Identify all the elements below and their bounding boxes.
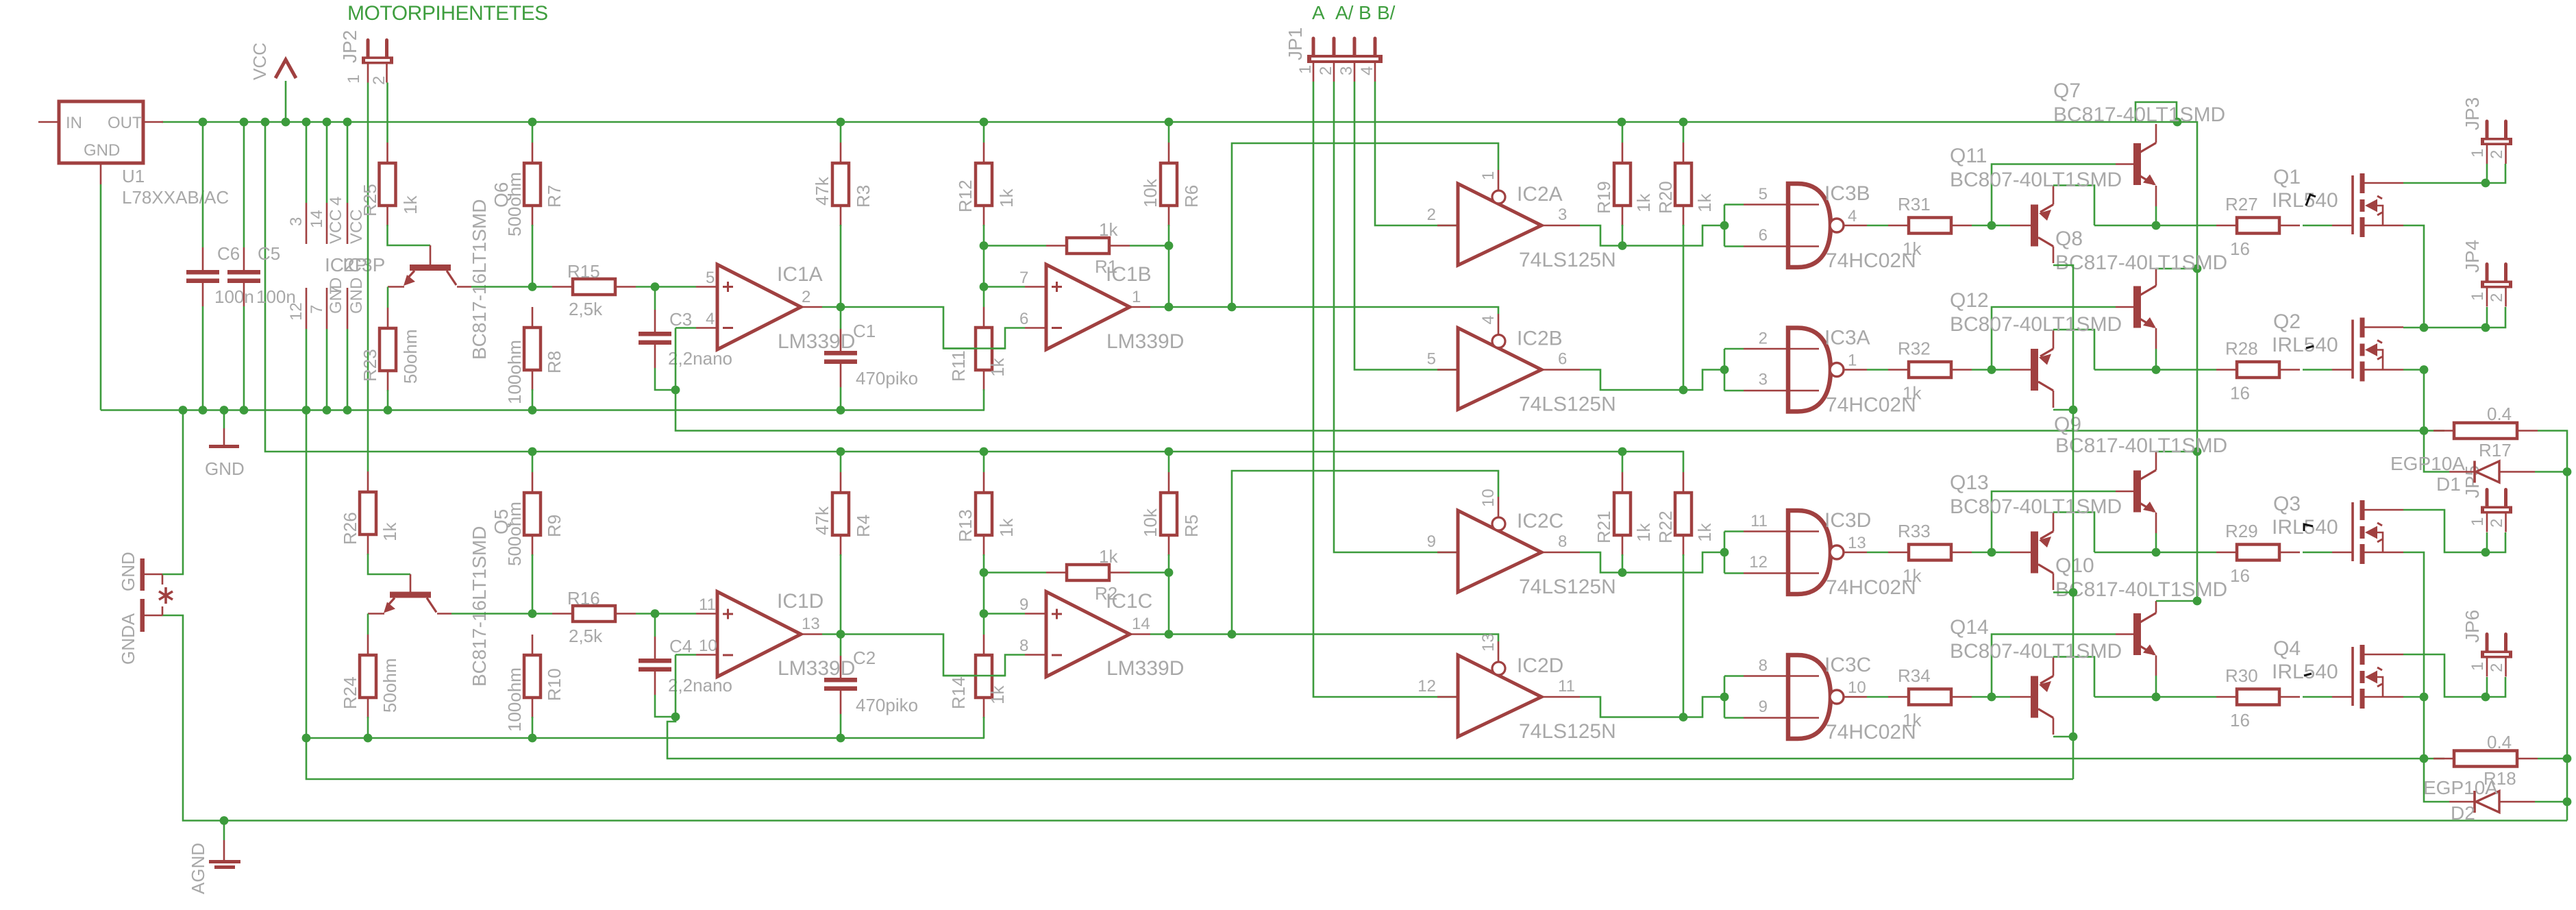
wire IC1B out to IC2B enable — [1232, 307, 1498, 314]
wire JP5 pins to node — [2486, 532, 2488, 552]
svg-text:2: 2 — [2488, 519, 2506, 528]
svg-text:IC3B: IC3B — [1824, 182, 1870, 205]
transistor Q6 — [430, 245, 432, 265]
svg-text:16: 16 — [2230, 565, 2250, 586]
wire R24 to lower GND bus — [367, 717, 369, 738]
svg-text:10: 10 — [1479, 489, 1498, 507]
resistor R32 — [1888, 369, 1909, 371]
wire R4 to output node — [840, 554, 842, 635]
resistor R22 — [1683, 472, 1685, 493]
svg-text:JP2: JP2 — [339, 30, 360, 63]
svg-text:9: 9 — [1759, 698, 1768, 716]
svg-text:R17: R17 — [2479, 440, 2512, 460]
svg-text:Q10: Q10 — [2055, 554, 2094, 577]
op-amp IC1A LM339D — [717, 265, 801, 349]
svg-text:R27: R27 — [2225, 194, 2258, 214]
transistor Q5 — [410, 574, 412, 592]
svg-text:1k: 1k — [987, 358, 1008, 377]
svg-text:D1: D1 — [2436, 474, 2461, 495]
svg-text:6: 6 — [1759, 226, 1768, 245]
svg-text:2: 2 — [370, 76, 388, 85]
resistor R29 — [2216, 552, 2237, 554]
resistor R11 — [983, 287, 985, 308]
op-amp IC1B LM339D — [1046, 265, 1130, 349]
wire Q4 drain jog to JP6 — [2403, 654, 2486, 697]
pin IC1D + input — [696, 613, 717, 615]
svg-text:IC1A: IC1A — [777, 263, 823, 286]
svg-text:500ohm: 500ohm — [504, 502, 525, 566]
svg-text:Q4: Q4 — [2273, 637, 2301, 660]
svg-text:IRL540: IRL540 — [2272, 334, 2338, 356]
svg-text:1: 1 — [1132, 288, 1141, 306]
buffer IC2C 74LS125N — [1458, 511, 1541, 592]
svg-text:IN: IN — [66, 114, 82, 132]
transistor Q11 BC807-40LT1SMD — [2031, 205, 2038, 247]
svg-text:R10: R10 — [544, 668, 565, 701]
wire Q6 emitter to R23 — [388, 286, 404, 288]
svg-text:6: 6 — [1558, 350, 1567, 369]
svg-text:3: 3 — [1337, 66, 1356, 75]
svg-text:9: 9 — [1427, 532, 1436, 551]
svg-text:47k: 47k — [812, 176, 832, 206]
wire Q5 collector to node B — [437, 613, 451, 615]
header JP6 — [2486, 635, 2489, 651]
svg-text:Q13: Q13 — [1950, 471, 1989, 494]
pin IC1A - input — [696, 327, 717, 329]
pin IC1D - input — [696, 654, 717, 656]
svg-text:R22: R22 — [1655, 511, 1676, 543]
svg-text:Q14: Q14 — [1950, 616, 1989, 639]
svg-text:11: 11 — [699, 595, 716, 614]
wire IC2A output jog — [1580, 225, 1724, 246]
svg-text:5: 5 — [1427, 350, 1436, 369]
wire R2 right to R5 node — [1130, 571, 1169, 574]
wire R10 to lower GND bus — [532, 717, 534, 738]
svg-text:10k: 10k — [1140, 508, 1161, 537]
svg-text:LM339D: LM339D — [1106, 330, 1184, 353]
wire driver ground bus — [306, 738, 2073, 779]
wire GND bus — [101, 409, 984, 411]
svg-text:1k: 1k — [1903, 565, 1922, 586]
svg-text:A: A — [1312, 2, 1325, 23]
wire R5 node to output node — [1168, 554, 1170, 573]
svg-text:IC2B: IC2B — [1517, 328, 1563, 350]
resistor R7 — [532, 122, 534, 143]
resistor R4 — [840, 452, 842, 472]
svg-text:9: 9 — [1019, 595, 1028, 614]
svg-text:EGP10A: EGP10A — [2390, 453, 2465, 474]
resistor R24 — [367, 635, 369, 655]
svg-text:BC817-40LT1SMD: BC817-40LT1SMD — [2055, 578, 2227, 601]
svg-text:LM339D: LM339D — [1106, 657, 1184, 680]
svg-text:IC3C: IC3C — [1824, 654, 1871, 676]
svg-text:3: 3 — [1759, 371, 1768, 389]
svg-text:R8: R8 — [544, 351, 565, 373]
wire JP2 pin2 to R25 — [386, 83, 388, 143]
wire R22 down to IC2D jog — [1683, 554, 1685, 717]
svg-text:IRL540: IRL540 — [2272, 189, 2338, 212]
header JP4 — [2486, 265, 2489, 281]
wire R21 to jog — [1622, 554, 1624, 573]
svg-text:GND: GND — [347, 278, 366, 314]
wire R1 right to R6 node — [1130, 245, 1169, 247]
wire VCC top rail — [162, 121, 2177, 123]
svg-text:50ohm: 50ohm — [380, 659, 400, 713]
wire R18 right to common — [2538, 758, 2567, 760]
NOR gate IC3C 74HC02N — [1788, 655, 1831, 739]
svg-text:JP4: JP4 — [2462, 240, 2483, 273]
svg-text:1: 1 — [1848, 352, 1857, 370]
supply VCC arrow — [285, 81, 287, 122]
wire R13 node down to IC1C + — [983, 573, 985, 614]
svg-text:1k: 1k — [1099, 219, 1118, 240]
svg-text:1k: 1k — [1099, 546, 1118, 567]
svg-text:IC1B: IC1B — [1106, 263, 1152, 286]
svg-text:C2: C2 — [853, 648, 876, 668]
wire R19 to jog — [1622, 225, 1624, 246]
wire JP4 pins to drain — [2486, 307, 2488, 328]
pin IC2A output — [1541, 225, 1580, 227]
transistor Q7 BC817-40LT1SMD — [2133, 143, 2141, 185]
wire IC1D - to C4 bottom — [675, 655, 677, 717]
capacitor C1 — [840, 307, 842, 329]
wire R14 to lower GND bus — [983, 717, 985, 738]
resistor R6 — [1168, 122, 1170, 143]
op-amp IC1D LM339D — [717, 592, 801, 677]
wire Q1 source down to Q2 drain — [2403, 225, 2424, 328]
scribble on Q1 label — [2306, 195, 2316, 206]
wire IC2A to NOR inputs — [1724, 205, 1726, 247]
svg-text:R9: R9 — [544, 515, 565, 537]
svg-text:JP1: JP1 — [1285, 27, 1306, 60]
wire VCC rail to right vertical — [2177, 122, 2197, 600]
svg-text:50ohm: 50ohm — [400, 330, 421, 384]
svg-text:1k: 1k — [1633, 193, 1654, 212]
svg-text:1k: 1k — [996, 518, 1017, 537]
svg-text:U1: U1 — [122, 166, 145, 186]
resistor R21 — [1622, 452, 1624, 472]
resistor R15 — [532, 286, 552, 288]
svg-text:R20: R20 — [1655, 181, 1676, 214]
wire IC1A - to C3 bottom — [675, 328, 677, 391]
pin U1 IN — [38, 121, 59, 123]
wire R25 to Q6 base — [388, 225, 431, 245]
svg-text:7: 7 — [1019, 269, 1028, 287]
wire IC2D to NOR inputs — [1724, 676, 1726, 718]
MOSFET Q4 IRL540 — [2351, 647, 2354, 706]
svg-text:2: 2 — [2488, 663, 2506, 672]
wire IC2D output jog — [1580, 697, 1724, 717]
svg-text:Q3: Q3 — [2273, 493, 2301, 515]
svg-text:8: 8 — [1558, 532, 1567, 551]
svg-text:C4: C4 — [669, 636, 692, 656]
supply GNDA bar — [140, 599, 145, 632]
svg-text:VCC: VCC — [249, 42, 270, 80]
svg-text:C3: C3 — [669, 309, 692, 330]
wire R30 to Q4 gate — [2303, 696, 2332, 698]
svg-text:BC807-40LT1SMD: BC807-40LT1SMD — [1950, 313, 2122, 336]
pin IC2C input — [1437, 552, 1458, 554]
svg-text:1k: 1k — [1903, 710, 1922, 730]
svg-text:74LS125N: 74LS125N — [1519, 249, 1616, 271]
svg-text:R7: R7 — [544, 185, 565, 208]
wire R32 node to Q8 base — [1992, 307, 2116, 370]
scribble on Q3 label — [2304, 524, 2313, 531]
wire GND bar to bus — [162, 410, 183, 575]
resistor R31 — [1888, 225, 1909, 227]
resistor R10 — [532, 635, 534, 655]
svg-text:LM339D: LM339D — [778, 657, 855, 680]
pin IC2C output — [1541, 552, 1580, 554]
wire driver output row Q4 — [2094, 696, 2216, 698]
wire U1 GND to bus — [100, 184, 102, 410]
buffer IC2B 74LS125N — [1458, 328, 1541, 410]
svg-text:Q11: Q11 — [1950, 145, 1987, 167]
svg-text:R12: R12 — [955, 180, 976, 212]
svg-text:EGP10A: EGP10A — [2423, 777, 2498, 798]
supply star — [159, 587, 173, 604]
wire IC2C output jog — [1580, 552, 1724, 573]
svg-text:13: 13 — [1479, 633, 1498, 652]
svg-text:74LS125N: 74LS125N — [1519, 393, 1616, 416]
svg-text:4: 4 — [1848, 207, 1857, 225]
pin IC2D input — [1437, 696, 1458, 698]
wire IC2C to NOR inputs — [1724, 532, 1726, 574]
resistor R28 — [2216, 369, 2237, 371]
svg-text:R16: R16 — [567, 588, 600, 608]
svg-text:B: B — [1359, 2, 1372, 23]
pin IC1B output — [1130, 306, 1150, 308]
wire IC2B output jog — [1580, 370, 1724, 391]
svg-text:10k: 10k — [1140, 178, 1161, 208]
svg-text:2: 2 — [802, 288, 810, 306]
svg-text:OUT: OUT — [108, 114, 143, 132]
NOR gate IC3D 74HC02N — [1788, 511, 1831, 594]
svg-text:3: 3 — [287, 217, 306, 226]
resistor R3 — [840, 122, 842, 143]
svg-text:R26: R26 — [340, 512, 360, 545]
svg-text:14: 14 — [1132, 615, 1150, 633]
svg-text:2,2nano: 2,2nano — [668, 675, 732, 696]
wire R34 to bases — [1972, 696, 2010, 698]
resistor R26 — [367, 471, 369, 492]
svg-text:JP6: JP6 — [2462, 610, 2483, 643]
wire R31 node to Q7 base — [1992, 164, 2116, 226]
pin IC2B output — [1541, 369, 1580, 371]
svg-text:1k: 1k — [1633, 523, 1654, 542]
wire R29 to Q3 gate — [2303, 552, 2332, 554]
svg-text:MOTORPIHENTETES: MOTORPIHENTETES — [347, 2, 548, 25]
svg-text:7: 7 — [308, 305, 326, 314]
wire JP2 pin1 to R26 — [367, 83, 369, 472]
resistor R19 — [1622, 122, 1624, 143]
wire R34 node to Q10 base — [1992, 635, 2116, 698]
header JP5 — [2486, 490, 2489, 506]
svg-text:BC807-40LT1SMD: BC807-40LT1SMD — [1950, 640, 2122, 663]
wire sense bus B (R18) — [667, 717, 2444, 759]
wire R17 right to common — [2538, 431, 2567, 821]
svg-text:AGND: AGND — [188, 843, 208, 894]
wire JP1 pin1 to IC2D input — [1313, 82, 1458, 697]
svg-text:2: 2 — [2488, 293, 2506, 302]
pin IC1C - input — [1025, 654, 1046, 656]
svg-text:2: 2 — [1759, 330, 1768, 348]
wire IC1A output jog to IC1B - — [822, 307, 1025, 349]
pin IC1B + input — [1025, 286, 1046, 288]
svg-text:0.4: 0.4 — [2487, 732, 2512, 752]
wire Q6 collector to node A — [457, 286, 471, 288]
svg-text:8: 8 — [1759, 656, 1768, 675]
wire R8 to GND bus — [532, 389, 534, 410]
NOR gate IC3A 74HC02N — [1788, 328, 1831, 412]
transistor Q14 BC807-40LT1SMD — [2031, 676, 2038, 718]
svg-text:BC807-40LT1SMD: BC807-40LT1SMD — [1950, 169, 2122, 191]
svg-text:Q1: Q1 — [2273, 166, 2301, 188]
svg-text:2,5k: 2,5k — [569, 299, 603, 319]
svg-text:1: 1 — [345, 75, 363, 84]
resistor R27 — [2216, 225, 2237, 227]
svg-text:R34: R34 — [1898, 665, 1931, 686]
svg-text:IC3P: IC3P — [343, 254, 385, 275]
svg-text:4: 4 — [1479, 315, 1498, 324]
svg-text:R24: R24 — [340, 676, 360, 709]
wire R20 down to IC2B jog — [1683, 225, 1685, 390]
capacitor C5 — [243, 122, 245, 247]
wire R11 to GND bus — [983, 389, 985, 410]
wire driver output row Q1 — [2094, 225, 2216, 227]
wire Q4 source to sense B — [2403, 696, 2424, 698]
wire Q2 source to sense A — [2403, 370, 2424, 431]
MOSFET Q3 IRL540 — [2351, 502, 2354, 561]
pin U1 OUT — [143, 121, 163, 123]
resistor R34 — [1888, 696, 1909, 698]
NOR gate IC3B 74HC02N — [1788, 184, 1831, 267]
wire Q2 drain to JP4 — [2403, 327, 2486, 329]
svg-text:1k: 1k — [1694, 193, 1715, 212]
svg-text:1k: 1k — [1903, 238, 1922, 259]
svg-text:500ohm: 500ohm — [504, 172, 525, 236]
svg-text:LM339D: LM339D — [778, 330, 855, 353]
svg-text:JP3: JP3 — [2462, 97, 2483, 130]
wire IC3D output — [1867, 552, 1888, 554]
ground GND symbol — [220, 406, 229, 415]
svg-text:1k: 1k — [987, 685, 1008, 704]
diode D2 EGP10A — [2424, 759, 2449, 802]
wire JP1 pin4 to IC2A input — [1375, 82, 1458, 225]
svg-text:R3: R3 — [853, 185, 874, 208]
header JP1 — [1312, 38, 1315, 55]
svg-text:R14: R14 — [948, 676, 969, 709]
svg-text:BC817-40LT1SMD: BC817-40LT1SMD — [2053, 103, 2225, 126]
capacitor C2 — [840, 635, 842, 656]
pin IC2D output — [1541, 696, 1580, 698]
pin IC1B - input — [1025, 327, 1046, 329]
resistor R12 — [983, 122, 985, 143]
svg-text:12: 12 — [287, 302, 306, 321]
svg-text:IC1C: IC1C — [1106, 590, 1152, 613]
capacitor C6 — [202, 122, 204, 247]
op-amp IC1C LM339D — [1046, 592, 1130, 677]
svg-text:12: 12 — [1417, 677, 1436, 696]
svg-text:14: 14 — [308, 210, 326, 228]
resistor R17 0.4 — [2433, 430, 2454, 432]
MOSFET Q1 IRL540 — [2351, 175, 2354, 234]
wire IC1B output node — [1150, 306, 1232, 308]
capacitor C4 — [654, 614, 656, 637]
wire IC1C output node — [1150, 633, 1232, 635]
transistor Q12 BC807-40LT1SMD — [2031, 349, 2038, 391]
wire driver output row Q3 — [2094, 552, 2216, 554]
svg-text:1: 1 — [2468, 662, 2487, 671]
wire R33 node to Q9 base — [1992, 491, 2116, 552]
wire Q3 source down to Q4 — [2403, 552, 2424, 697]
svg-text:11: 11 — [1558, 677, 1575, 696]
svg-text:R21: R21 — [1594, 511, 1614, 543]
svg-text:R25: R25 — [360, 184, 380, 217]
svg-text:Q2: Q2 — [2273, 310, 2301, 333]
svg-text:D2: D2 — [2451, 802, 2475, 824]
pin U1 GND — [100, 163, 102, 184]
scribble on Q2 label — [2306, 346, 2314, 348]
svg-text:10: 10 — [699, 637, 717, 655]
svg-text:100n: 100n — [214, 286, 254, 307]
svg-text:IC3D: IC3D — [1824, 509, 1871, 532]
svg-text:R31: R31 — [1898, 194, 1931, 214]
resistor R8 — [532, 307, 534, 328]
svg-text:3: 3 — [1558, 206, 1567, 224]
wire R27 to Q1 gate — [2303, 225, 2332, 227]
svg-text:1k: 1k — [400, 195, 421, 214]
svg-text:IRL540: IRL540 — [2272, 661, 2338, 683]
resistor R30 — [2216, 696, 2237, 698]
svg-text:C1: C1 — [853, 321, 876, 341]
svg-text:IC2C: IC2C — [1517, 510, 1563, 532]
svg-text:4: 4 — [1358, 66, 1376, 75]
wire Q3 drain jog to JP5 — [2403, 510, 2486, 552]
voltage regulator U1 — [59, 101, 143, 163]
svg-text:7: 7 — [327, 286, 345, 295]
wire IC1C out to IC2D enable — [1232, 635, 1498, 642]
svg-text:VCC: VCC — [327, 209, 345, 244]
svg-text:IC1D: IC1D — [777, 590, 823, 613]
wire R15 to IC1A + — [636, 286, 655, 288]
pin IC1C + input — [1025, 613, 1046, 615]
wire R6 node to output node — [1168, 225, 1170, 246]
wire sense B drop — [2423, 697, 2425, 759]
svg-text:IC2D: IC2D — [1517, 654, 1563, 677]
junction dots on VCC rail — [199, 118, 208, 127]
svg-text:1: 1 — [1479, 171, 1498, 180]
svg-text:C5: C5 — [258, 243, 280, 264]
wire R26 to Q5 base — [368, 554, 410, 574]
ground AGND symbol — [220, 816, 229, 825]
svg-text:C6: C6 — [217, 243, 240, 264]
svg-text:6: 6 — [1019, 310, 1028, 328]
svg-text:BC807-40LT1SMD: BC807-40LT1SMD — [1950, 495, 2122, 518]
svg-text:16: 16 — [2230, 238, 2250, 259]
wire AGND bus — [162, 615, 2567, 821]
svg-text:Q7: Q7 — [2053, 79, 2081, 102]
resistor R5 — [1168, 452, 1170, 472]
svg-text:10: 10 — [1848, 678, 1866, 697]
svg-text:R23: R23 — [360, 349, 380, 382]
wire JP3 pins to drain — [2486, 164, 2488, 183]
MOSFET Q2 IRL540 — [2351, 320, 2354, 379]
wire R23 to GND bus — [387, 390, 389, 410]
pin IC1D output — [801, 633, 822, 635]
svg-text:1k: 1k — [380, 522, 400, 541]
wire JP6 pins to node — [2486, 677, 2488, 697]
